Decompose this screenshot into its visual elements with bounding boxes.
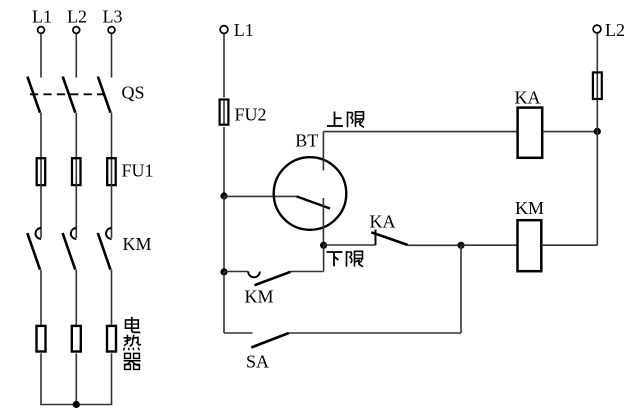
- wire heater R1 to bottom bus: [40, 353, 42, 404]
- junction dot node B: [594, 128, 601, 135]
- svg-text:KM: KM: [245, 287, 274, 307]
- wire KM pole2 to heater R2: [75, 270, 77, 325]
- junction dot node C (below BT): [320, 242, 327, 249]
- wire KM coil to L2 riser: [541, 244, 597, 246]
- svg-text:BT: BT: [295, 130, 318, 150]
- contactor KM main contact pole1 (arc + blade): [27, 228, 41, 270]
- label 电热器 (electric heater, stacked): [124, 317, 142, 370]
- svg-text:KA: KA: [515, 88, 541, 108]
- label 下限 (lower limit): [327, 251, 364, 267]
- wire QS pole3 to FU1c: [111, 113, 113, 184]
- switch QS pole2 blade: [63, 77, 76, 113]
- wire KA contact to node D: [408, 244, 461, 246]
- wire L3 terminal to QS pole3: [111, 34, 113, 78]
- svg-text:KM: KM: [123, 234, 152, 254]
- BT lower-limit electrode: [322, 198, 324, 245]
- BT pointer (moving contact): [297, 196, 331, 208]
- wire L1 terminal to QS pole1: [40, 34, 42, 78]
- svg-text:FU1: FU1: [122, 160, 154, 180]
- char 下: [327, 252, 343, 266]
- junction dot node D: [457, 242, 464, 249]
- char 上: [327, 112, 343, 127]
- char 器: [124, 353, 141, 369]
- contactor coil KM: [518, 220, 542, 271]
- fuse FU1 pole2: [72, 158, 81, 185]
- wire KM aux contact to node C riser: [291, 271, 324, 273]
- switch QS pole3 blade: [98, 77, 111, 113]
- wire FU1c to KM pole3: [111, 184, 113, 238]
- relay contact KA (NO): [371, 230, 408, 246]
- wire L2 to fuse: [596, 33, 598, 72]
- svg-text:L2: L2: [67, 7, 87, 27]
- wire heater R3 to bottom bus: [111, 353, 113, 404]
- contactor KM main contact pole2 (arc + blade): [63, 228, 77, 270]
- svg-text:QS: QS: [122, 82, 145, 102]
- wire node E down to SA branch: [223, 272, 225, 333]
- contact thermometer BT (circle): [274, 157, 347, 230]
- char 电: [126, 317, 141, 333]
- bottom bus wire: [40, 404, 112, 406]
- wire L1 to FU2: [223, 34, 225, 98]
- wire FU1a to KM pole1: [40, 184, 42, 238]
- fuse FU2: [220, 100, 229, 125]
- fuse (L2 side): [593, 72, 602, 99]
- char 限: [347, 251, 364, 267]
- wire KM pole1 to heater R1: [40, 270, 42, 325]
- wire QS pole2 to FU1b: [75, 113, 77, 184]
- terminal L2 (control): [593, 25, 601, 33]
- terminal L1: [38, 27, 45, 34]
- fuse FU1 pole1: [37, 158, 46, 185]
- terminal L2: [73, 27, 80, 34]
- QS mechanical link (dashed): [30, 93, 106, 95]
- wire FU1b to KM pole2: [75, 184, 77, 238]
- wire riser to node B: [596, 131, 598, 245]
- svg-text:L1: L1: [32, 7, 52, 27]
- svg-text:L3: L3: [103, 7, 123, 27]
- wire SA to node D riser: [289, 332, 461, 334]
- svg-text:KA: KA: [370, 211, 396, 231]
- switch SA blade: [251, 333, 288, 348]
- svg-text:SA: SA: [246, 352, 269, 372]
- fuse FU1 pole3: [107, 158, 116, 185]
- junction dot node E: [220, 268, 227, 275]
- wire 上限 to relay coil KA: [323, 131, 517, 133]
- wire node E to KM aux contact: [224, 271, 248, 273]
- heater element R1: [37, 326, 46, 352]
- svg-text:KM: KM: [515, 198, 544, 218]
- char 热: [124, 335, 142, 351]
- wire KA coil to node B: [542, 131, 597, 133]
- char 限: [348, 112, 365, 128]
- wire L2 terminal to QS pole2: [75, 34, 77, 78]
- wire riser up to node C: [323, 245, 325, 271]
- relay coil KA: [518, 108, 543, 158]
- svg-text:L1: L1: [234, 20, 254, 40]
- wire FU2 down to node A (BT feed): [223, 127, 225, 196]
- junction dot bottom bus: [73, 401, 80, 408]
- heater element R3: [107, 326, 116, 352]
- contactor KM main contact pole3 (arc + blade): [98, 228, 112, 270]
- terminal L3: [108, 27, 115, 34]
- wire corner to SA contact: [224, 332, 253, 334]
- wire fuse to node B: [596, 99, 598, 131]
- terminal L1 (control): [220, 26, 228, 34]
- switch QS pole1 blade: [27, 77, 40, 113]
- wire node D to KM coil: [461, 244, 518, 246]
- wire riser up to node D: [460, 245, 462, 333]
- BT upper-limit electrode: [322, 132, 324, 171]
- heater element R2: [72, 326, 81, 352]
- wire heater R2 to bottom bus: [75, 353, 77, 404]
- wire node A to BT stem: [224, 195, 297, 197]
- wire QS pole1 to FU1a: [40, 113, 42, 184]
- junction dot node A: [220, 192, 227, 199]
- contactor auxiliary contact KM (arc + blade): [248, 272, 290, 286]
- svg-text:FU2: FU2: [235, 104, 267, 124]
- wire KM pole3 to heater R3: [111, 270, 113, 325]
- wire node C to KA contact: [324, 244, 376, 246]
- wire node A down to KM aux branch (node E): [223, 196, 225, 272]
- svg-text:L2: L2: [605, 20, 625, 40]
- label 上限 (upper limit): [327, 112, 364, 128]
